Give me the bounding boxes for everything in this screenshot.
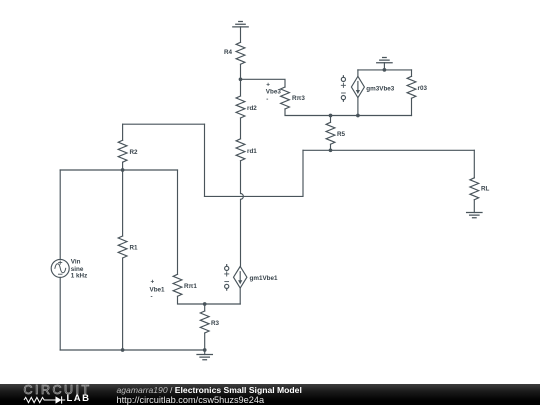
resistor R4 xyxy=(236,42,245,64)
resistor Rpi3 xyxy=(281,87,290,109)
svg-text:gm1Vbe1: gm1Vbe1 xyxy=(250,275,278,282)
wire rd2 bottom to rd1 top xyxy=(240,118,242,139)
svg-text:Vbe3: Vbe3 xyxy=(266,89,282,96)
wire top rail to source top xyxy=(357,70,359,76)
svg-text:Rπ3: Rπ3 xyxy=(292,95,305,102)
ground (RL bottom) xyxy=(467,200,482,218)
wire R2 top rail xyxy=(123,123,205,125)
svg-text:-: - xyxy=(266,96,268,103)
svg-text:+: + xyxy=(151,278,155,285)
svg-text:1 kHz: 1 kHz xyxy=(71,273,87,280)
wire input rail xyxy=(60,169,177,171)
wire step down from output rail xyxy=(205,150,304,196)
node ground rail junction dot xyxy=(203,348,207,352)
svg-text:-: - xyxy=(151,294,153,301)
svg-text:RL: RL xyxy=(481,186,490,193)
wire Rpi1 column xyxy=(177,170,179,274)
node emitter junction dot xyxy=(203,302,207,306)
footer bar xyxy=(0,384,540,405)
wire source bottom to bottom rail xyxy=(357,98,359,116)
resistor rd2 xyxy=(236,96,245,118)
op ground (top right) xyxy=(377,58,392,70)
wire bottom rail of gm3Vbe3 cell xyxy=(358,115,412,117)
wire vertical feedback segment xyxy=(204,124,206,196)
node R5 top junction dot xyxy=(329,114,333,118)
wire output rail to RL xyxy=(303,149,474,151)
wire Vin bottom lead xyxy=(59,277,61,350)
svg-text:rd2: rd2 xyxy=(247,105,257,112)
resistor R2 xyxy=(118,124,127,170)
node R5 bottom junction dot xyxy=(329,148,333,152)
resistor R3 xyxy=(200,304,209,350)
dependent source gm1Vbe1 xyxy=(225,265,247,291)
svg-text:Vin: Vin xyxy=(71,258,81,265)
resistor RL xyxy=(470,178,479,200)
wire Rpi3 bottom to bottom rail xyxy=(285,109,358,116)
svg-text:R5: R5 xyxy=(337,131,346,138)
voltage source Vin xyxy=(51,259,69,277)
wire RL top lead xyxy=(473,150,475,178)
wire rd1 bottom with hop over horizontal wire xyxy=(241,161,244,267)
svg-text:Rπ1: Rπ1 xyxy=(184,283,197,290)
resistor r03 xyxy=(407,70,416,116)
resistor Rpi1 xyxy=(173,274,182,296)
svg-text:R2: R2 xyxy=(130,149,139,156)
svg-text:r03: r03 xyxy=(418,85,428,92)
wire Rpi1 bottom to emitter rail xyxy=(178,296,241,304)
svg-text:R3: R3 xyxy=(211,320,220,327)
wire R2 node down to R1 xyxy=(122,170,124,236)
node source bottom junction dot xyxy=(356,114,360,118)
CircuitLab logo xyxy=(0,384,100,405)
node R1 bottom junction dot xyxy=(121,348,125,352)
ground (bottom middle) xyxy=(197,350,212,360)
dependent source gm3Vbe3 xyxy=(341,76,364,102)
wire R4 bottom to rd2 top xyxy=(240,64,242,96)
svg-text:+: + xyxy=(266,81,270,88)
wire source bottom lead xyxy=(239,288,241,304)
wire bottom ground rail xyxy=(60,349,205,351)
node top-right junction dot xyxy=(383,68,387,72)
svg-text:Vbe1: Vbe1 xyxy=(150,287,166,294)
wire Vin top lead xyxy=(59,170,61,259)
label Vin value xyxy=(71,258,87,279)
ground (top, net of R4) xyxy=(233,22,248,43)
label Vbe3 polarity xyxy=(266,81,282,103)
wire R1 bottom to ground rail xyxy=(122,258,124,350)
wire node to Rpi3 top xyxy=(241,79,286,87)
svg-text:rd1: rd1 xyxy=(247,148,257,155)
svg-text:gm3Vbe3: gm3Vbe3 xyxy=(366,85,394,92)
resistor R5 xyxy=(326,116,335,151)
label Vbe1 polarity xyxy=(150,278,166,300)
svg-text:R4: R4 xyxy=(224,49,233,56)
resistor R1 xyxy=(118,236,127,258)
resistor rd1 xyxy=(236,139,245,161)
node R2 bottom junction dot xyxy=(121,168,125,172)
node drain2 junction dot xyxy=(239,77,243,81)
wire top rail of gm3Vbe3 cell xyxy=(358,69,412,71)
svg-text:R1: R1 xyxy=(130,245,139,252)
